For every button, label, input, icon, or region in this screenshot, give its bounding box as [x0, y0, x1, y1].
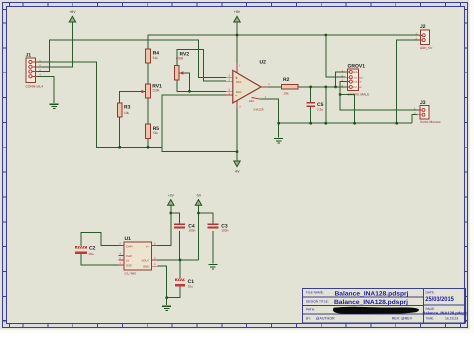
svg-text:25/03/2015: 25/03/2015 — [425, 296, 454, 303]
svg-text:100n: 100n — [188, 229, 195, 233]
svg-text:C2: C2 — [89, 245, 96, 251]
svg-text:16:23:29: 16:23:29 — [445, 317, 458, 321]
svg-text:ICL7660: ICL7660 — [125, 271, 137, 275]
svg-text:Balance_INA128.pdsprj: Balance_INA128.pdsprj — [423, 311, 468, 316]
svg-text:10u: 10u — [88, 252, 94, 256]
svg-text:_5V_3V3: _5V_3V3 — [352, 76, 364, 79]
svg-text:GND: GND — [353, 71, 359, 74]
svg-text:51k: 51k — [153, 131, 159, 135]
svg-text:-8V: -8V — [234, 170, 240, 174]
svg-text:Alim_5V: Alim_5V — [420, 46, 433, 50]
svg-text:Balance_INA128.pdsprj: Balance_INA128.pdsprj — [334, 299, 408, 306]
svg-text:J3: J3 — [420, 100, 426, 106]
svg-text:+8V: +8V — [69, 10, 76, 14]
svg-text:V+: V+ — [146, 244, 150, 248]
svg-text:-5V: -5V — [196, 194, 202, 198]
svg-text:RG2: RG2 — [236, 91, 242, 94]
svg-text:D17_5V: D17_5V — [353, 86, 362, 89]
svg-text:CONN-SIL4: CONN-SIL4 — [26, 84, 44, 88]
svg-text:GROVE MALE: GROVE MALE — [348, 92, 371, 96]
svg-text:R3: R3 — [124, 105, 131, 111]
svg-text:100n: 100n — [221, 229, 228, 233]
svg-text:U1: U1 — [125, 236, 132, 242]
svg-text:VOUT: VOUT — [142, 259, 150, 263]
svg-text:J2: J2 — [420, 24, 426, 30]
svg-text:RG1: RG1 — [236, 81, 242, 84]
svg-text:OSC: OSC — [126, 263, 132, 267]
svg-text:REF: REF — [249, 99, 255, 103]
svg-text:DATE:: DATE: — [426, 291, 435, 295]
svg-text:INA128: INA128 — [254, 107, 264, 111]
svg-text:J1: J1 — [26, 53, 32, 59]
svg-text:U2: U2 — [260, 59, 267, 65]
svg-text:FILE NAME:: FILE NAME: — [306, 291, 324, 295]
svg-text:CAP-: CAP- — [126, 254, 133, 258]
svg-text:GROV1: GROV1 — [348, 63, 366, 69]
svg-text:TIME:: TIME: — [426, 317, 435, 321]
svg-text:10k: 10k — [284, 91, 290, 95]
svg-text:DESIGN TITLE:: DESIGN TITLE: — [306, 299, 329, 303]
svg-text:CAP+: CAP+ — [126, 244, 134, 248]
svg-text:470R: 470R — [176, 56, 184, 60]
svg-text:220K: 220K — [152, 88, 160, 92]
svg-text:GND: GND — [143, 265, 149, 269]
svg-text:+8V: +8V — [234, 10, 241, 14]
svg-text:@AUTHOR: @AUTHOR — [316, 317, 335, 321]
svg-text:10u: 10u — [188, 284, 194, 288]
svg-text:Balance_INA128.pdsprj: Balance_INA128.pdsprj — [335, 290, 409, 297]
svg-text:PATH:: PATH: — [306, 308, 315, 312]
svg-text:10k: 10k — [124, 111, 130, 115]
svg-text:BY:: BY: — [306, 317, 311, 321]
svg-text:51k: 51k — [153, 56, 159, 60]
svg-text:LV: LV — [126, 259, 129, 263]
svg-text:2.2u: 2.2u — [317, 108, 323, 112]
svg-text:REV: @REV: REV: @REV — [392, 317, 413, 321]
svg-text:Sortie Mesure: Sortie Mesure — [420, 120, 441, 124]
svg-text:+5V: +5V — [168, 194, 175, 198]
svg-text:R2: R2 — [283, 77, 290, 83]
svg-text:D16_5V: D16_5V — [353, 81, 362, 84]
